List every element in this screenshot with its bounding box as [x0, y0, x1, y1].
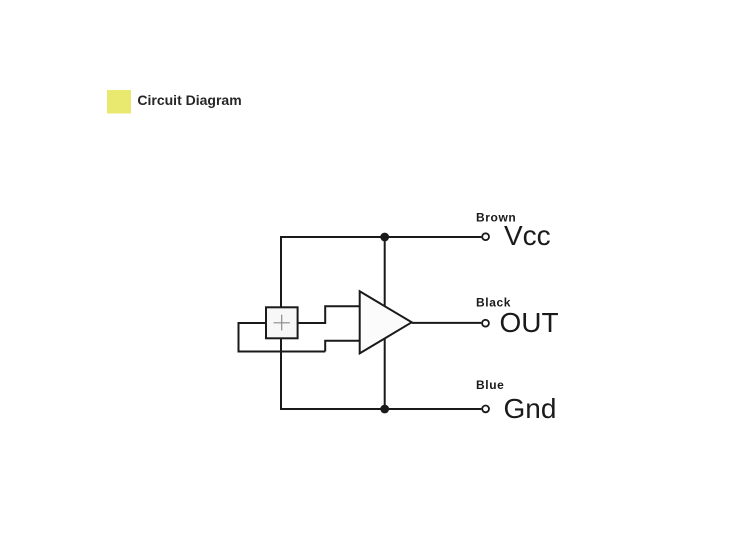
wire: Vcc top rail	[281, 236, 481, 238]
wire: left feedback loop	[239, 322, 326, 352]
svg-text:OUT: OUT	[500, 307, 559, 338]
wire: comparator output to OUT terminal	[412, 322, 482, 324]
wire: sensor horizontal through box	[239, 322, 326, 324]
wire: middle vertical (Vcc to Gnd through comparator)	[384, 237, 386, 409]
comparator U1 (op-amp triangle)	[360, 291, 412, 353]
wire: inverting input step	[325, 341, 361, 352]
wire: left vertical bus	[280, 236, 282, 410]
svg-text:Vcc: Vcc	[504, 220, 551, 251]
wire: Gnd bottom rail	[281, 408, 481, 410]
svg-text:Circuit Diagram: Circuit Diagram	[137, 92, 241, 108]
svg-text:Gnd: Gnd	[504, 393, 557, 424]
wire: non-inverting input step	[325, 306, 361, 324]
terminal: OUT pin	[482, 320, 489, 327]
hall sensor element (+ box)	[266, 307, 298, 338]
terminal: Vcc pin	[482, 233, 489, 240]
junction dot (Vcc rail)	[380, 233, 389, 242]
svg-text:Blue: Blue	[476, 378, 504, 392]
legend swatch (yellow)	[107, 90, 131, 114]
junction dot (Gnd rail)	[380, 405, 389, 414]
terminal: Gnd pin	[482, 406, 489, 413]
